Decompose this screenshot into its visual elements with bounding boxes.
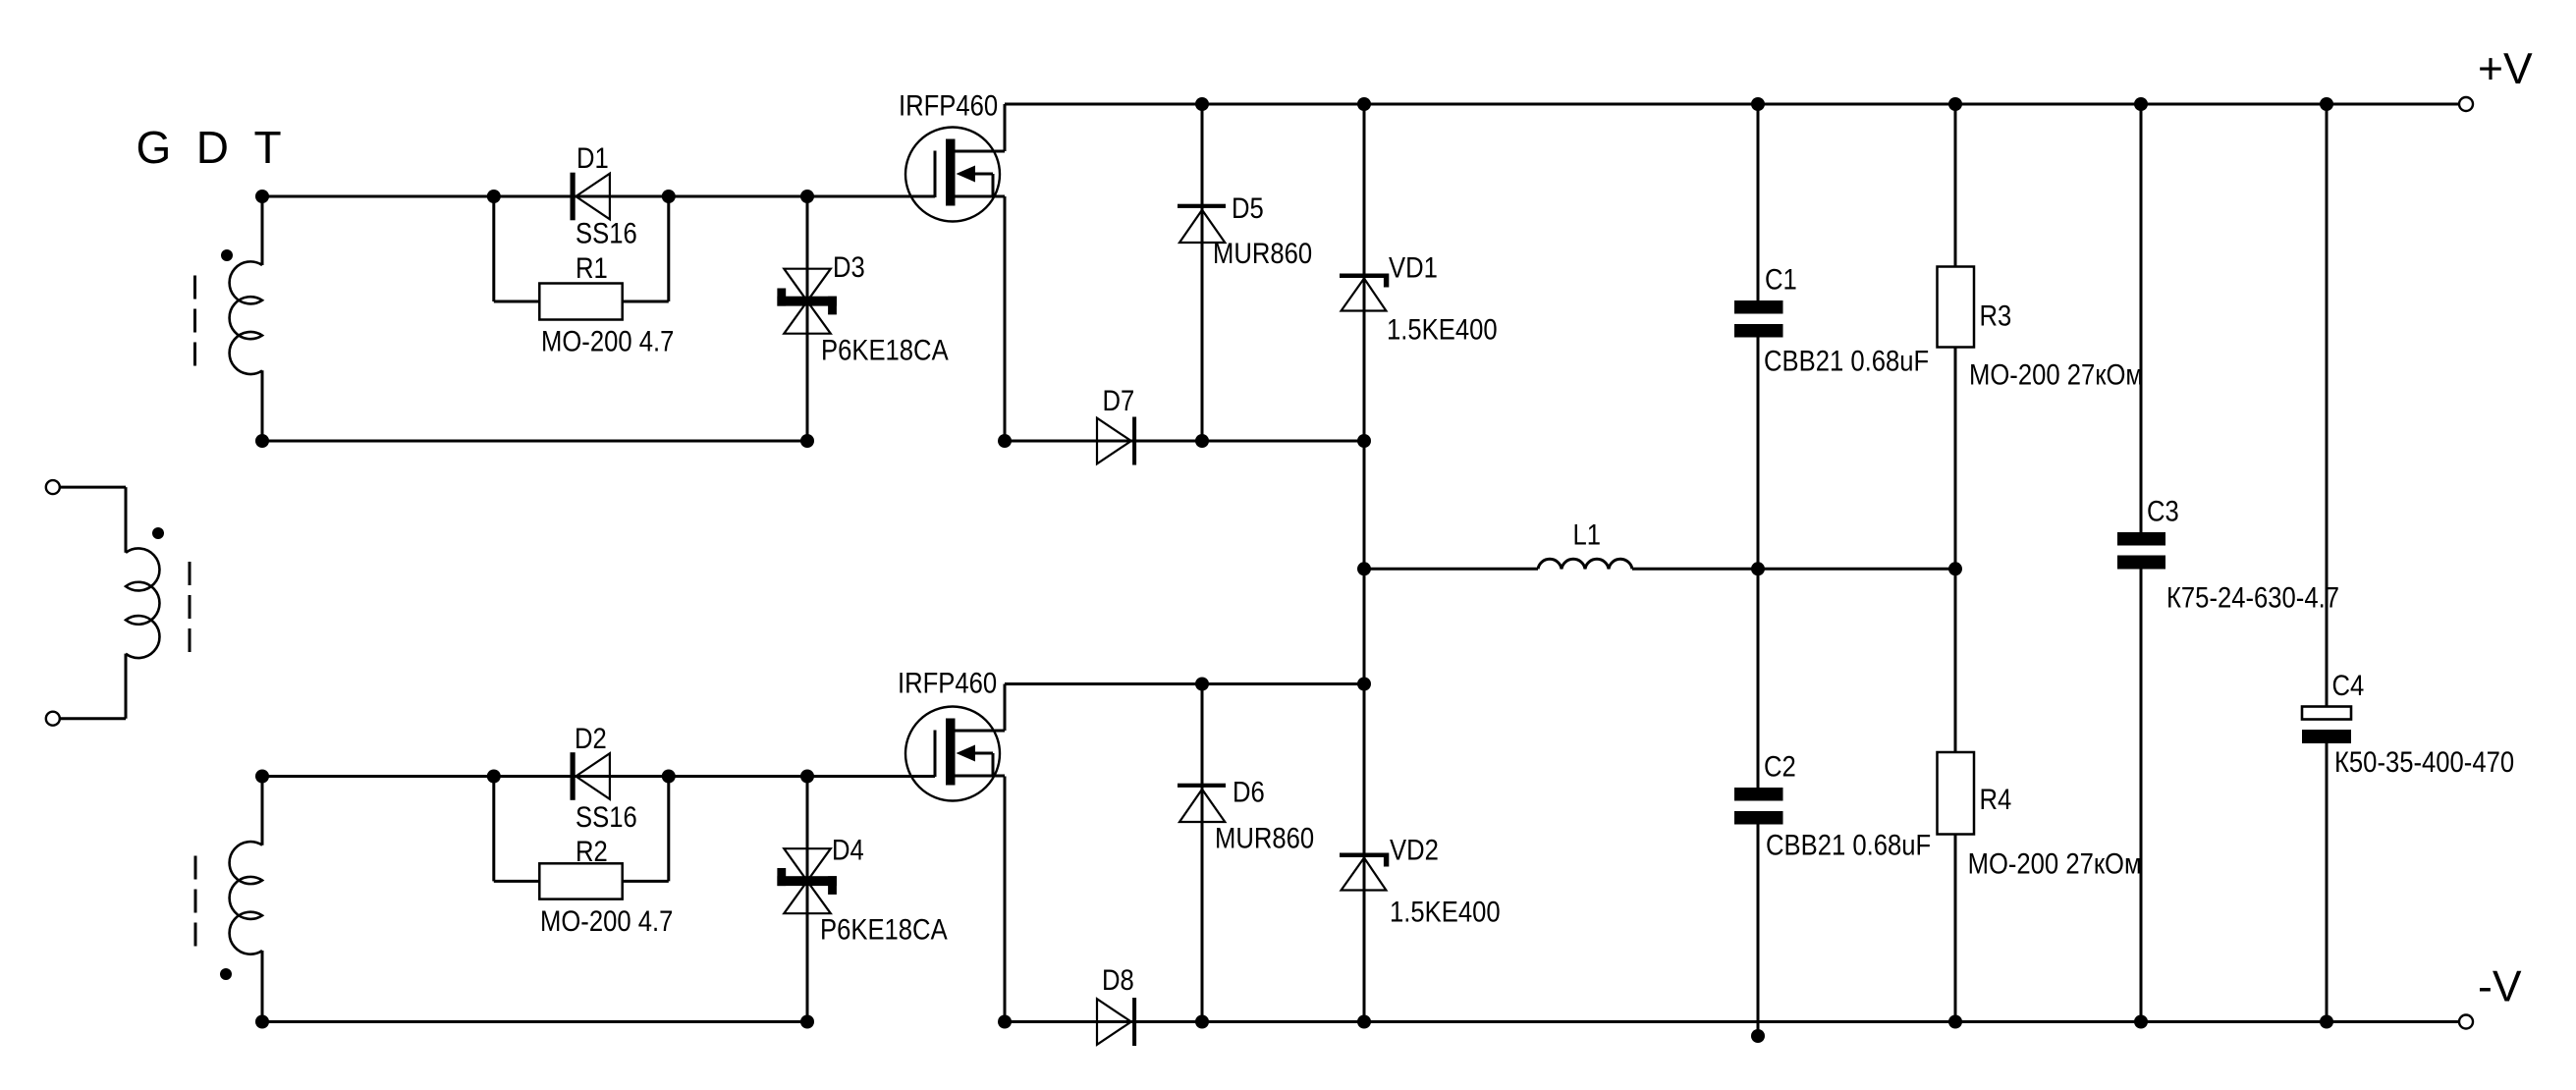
label MUR860 (D6): [1215, 822, 1314, 854]
wire R4 bottom: [1954, 835, 1957, 1022]
wire lower secondary top: [261, 777, 264, 845]
label MO-200 4.7 (R1): [541, 325, 674, 357]
wire R3 top: [1954, 104, 1957, 267]
wire C2 bottom: [1757, 825, 1760, 1037]
label R2: [575, 835, 608, 867]
svg-text:P6KE18CA: P6KE18CA: [821, 334, 949, 366]
winding upper secondary: [230, 261, 262, 374]
svg-text:VD1: VD1: [1389, 251, 1438, 284]
wire mid rail left: [1364, 568, 1538, 571]
node drain rail VD2: [1357, 678, 1371, 691]
svg-text:C3: C3: [2147, 495, 2179, 527]
core lower secondary: [194, 856, 197, 947]
wire C1 top: [1757, 104, 1760, 300]
node drain rail D6: [1195, 678, 1209, 691]
resistor R4: [1938, 752, 1975, 835]
node top C1: [1751, 97, 1765, 111]
label P6KE18CA (D3): [821, 334, 949, 366]
svg-text:GDT: GDT: [137, 122, 307, 173]
diode D6: [1178, 784, 1226, 822]
terminal -V: [2459, 1015, 2473, 1029]
tvs D4: [777, 848, 837, 913]
svg-text:C2: C2: [1764, 750, 1796, 783]
label IRFP460 lower: [898, 667, 997, 699]
transistor Q2 IRFP460: [905, 707, 1005, 801]
node bottom C3: [2134, 1015, 2148, 1029]
node D3 top: [800, 190, 814, 203]
svg-text:MUR860: MUR860: [1215, 822, 1314, 854]
label SS16: [575, 217, 637, 249]
label MUR860 (D5): [1213, 237, 1312, 269]
capacitor C1: [1734, 300, 1783, 338]
wire Q2 drain: [1004, 684, 1007, 732]
svg-text:К75-24-630-4.7: К75-24-630-4.7: [2166, 581, 2339, 614]
wire lower secondary bottom: [261, 951, 264, 1022]
wire C4 bottom: [2326, 743, 2329, 1022]
wire lower drain rail: [1005, 682, 1364, 685]
node Q2 source junction: [998, 1015, 1012, 1029]
wire bottom rail left: [262, 1020, 807, 1023]
svg-text:R4: R4: [1980, 783, 2012, 815]
svg-text:D7: D7: [1103, 384, 1135, 416]
node VD1 mid: [1357, 434, 1371, 448]
node top C3: [2134, 97, 2148, 111]
node Q1 source junction: [998, 434, 1012, 448]
svg-text:MO-200 27кОм: MO-200 27кОм: [1969, 358, 2143, 391]
svg-text:MO-200 4.7: MO-200 4.7: [540, 904, 673, 937]
label D7: [1103, 384, 1135, 416]
resistor R1: [539, 284, 622, 320]
diode D1: [571, 173, 610, 221]
wire D4 column: [806, 777, 809, 1022]
wire R2 left branch: [494, 777, 540, 882]
label GDT transformer: [137, 122, 307, 173]
resistor R2: [539, 863, 622, 899]
wire upper gate rail: [262, 195, 935, 198]
node top VD1: [1357, 97, 1371, 111]
svg-text:D3: D3: [833, 250, 865, 283]
tvs VD1: [1340, 274, 1389, 311]
label CBB21 0.68uF (C1): [1764, 345, 1929, 377]
wire R3-R4 column: [1954, 348, 1957, 753]
diode D8: [1097, 998, 1136, 1046]
svg-text:D6: D6: [1233, 776, 1265, 808]
node gdt upper bottom: [255, 434, 269, 448]
capacitor C2: [1734, 788, 1783, 825]
wire C3 top: [2140, 104, 2143, 532]
label VD2: [1390, 834, 1439, 866]
node bottom R4: [1948, 1015, 1962, 1029]
diode D7: [1097, 417, 1136, 465]
node top D5: [1195, 97, 1209, 111]
node gdt upper top: [255, 190, 269, 203]
label MO-200 4.7 (R2): [540, 904, 673, 937]
label -V: [2478, 963, 2522, 1011]
label 1.5KE400 (VD1): [1387, 313, 1498, 346]
node D5 bottom: [1195, 434, 1209, 448]
wire Q1 source: [1004, 196, 1007, 441]
tvs D3: [777, 269, 837, 334]
inductor L1: [1538, 559, 1632, 569]
node D4 bottom: [800, 1015, 814, 1029]
wire C4 top: [2326, 104, 2329, 707]
svg-text:+V: +V: [2478, 45, 2533, 93]
wire bottom rail right: [1005, 1020, 2459, 1023]
svg-text:CBB21 0.68uF: CBB21 0.68uF: [1766, 829, 1931, 861]
svg-text:MO-200 4.7: MO-200 4.7: [541, 325, 674, 357]
label VD1: [1389, 251, 1438, 284]
node bottom D6: [1195, 1015, 1209, 1029]
node bottom VD2: [1357, 1015, 1371, 1029]
label R3: [1980, 300, 2012, 332]
core primary: [189, 562, 192, 654]
wire C3 bottom: [2140, 570, 2143, 1022]
wire top rail: [1005, 103, 2459, 106]
label L1: [1573, 518, 1602, 551]
svg-text:MUR860: MUR860: [1213, 237, 1312, 269]
winding lower secondary: [230, 842, 262, 954]
wire D3 column: [806, 196, 809, 441]
svg-text:C1: C1: [1765, 263, 1797, 296]
label C1: [1765, 263, 1797, 296]
wire VD column: [1363, 104, 1366, 1022]
terminal primary top: [46, 480, 60, 494]
svg-text:IRFP460: IRFP460: [898, 667, 997, 699]
svg-text:D5: D5: [1232, 191, 1264, 224]
svg-text:К50-35-400-470: К50-35-400-470: [2334, 745, 2514, 778]
wire Q1 drain: [1004, 104, 1007, 151]
node D1 cathode-side: [662, 190, 676, 203]
wire R1 right branch: [623, 196, 669, 301]
label R1: [575, 251, 608, 284]
wire Q2 source: [1004, 777, 1007, 1022]
wire upper secondary bottom: [261, 370, 264, 441]
label D8: [1102, 963, 1134, 996]
wire mid rail right: [1632, 568, 1955, 571]
node mid VD: [1357, 562, 1371, 575]
svg-text:D2: D2: [575, 722, 607, 754]
svg-text:R1: R1: [575, 251, 608, 284]
label SS16 (D2): [575, 800, 637, 833]
phase dot upper secondary: [221, 249, 233, 261]
wire D5 column: [1201, 104, 1204, 441]
wire lower gate rail: [262, 775, 935, 778]
node C2 bottom: [1751, 1029, 1765, 1043]
svg-text:SS16: SS16: [575, 217, 637, 249]
capacitor C3: [2117, 532, 2165, 570]
label CBB21 0.68uF (C2): [1766, 829, 1931, 861]
label +V: [2478, 45, 2533, 93]
wire C1-C2 column: [1757, 338, 1760, 789]
node gdt lower bottom: [255, 1015, 269, 1029]
node D1 anode: [487, 190, 501, 203]
node mid R3: [1948, 562, 1962, 575]
wire primary bottom lead: [60, 654, 126, 719]
svg-text:IRFP460: IRFP460: [899, 89, 998, 122]
svg-text:C4: C4: [2332, 669, 2365, 701]
label D2: [575, 722, 607, 754]
label MO-200 27kOm (R3): [1969, 358, 2143, 391]
tvs VD2: [1340, 853, 1389, 891]
node gdt lower top: [255, 770, 269, 784]
label MO-200 27kOm (R4): [1968, 847, 2142, 880]
diode D2: [571, 752, 610, 800]
node bottom C4: [2320, 1015, 2333, 1029]
wire R1 left branch: [494, 196, 540, 301]
node top C4: [2320, 97, 2333, 111]
svg-text:1.5KE400: 1.5KE400: [1387, 313, 1498, 346]
svg-text:SS16: SS16: [575, 800, 637, 833]
wire source rail left: [262, 440, 807, 443]
phase dot primary: [152, 527, 164, 539]
label K50-35-400-470: [2334, 745, 2514, 778]
svg-text:1.5KE400: 1.5KE400: [1390, 896, 1501, 928]
svg-text:L1: L1: [1573, 518, 1602, 551]
svg-text:D8: D8: [1102, 963, 1134, 996]
label C2: [1764, 750, 1796, 783]
svg-text:R2: R2: [575, 835, 608, 867]
terminal +V: [2459, 97, 2473, 111]
node D2 cathode-side: [662, 770, 676, 784]
svg-text:MO-200 27кОм: MO-200 27кОм: [1968, 847, 2142, 880]
label 1.5KE400 (VD2): [1390, 896, 1501, 928]
node D4 top: [800, 770, 814, 784]
node D2 anode: [487, 770, 501, 784]
svg-text:D4: D4: [832, 834, 864, 866]
svg-text:P6KE18CA: P6KE18CA: [820, 913, 948, 946]
diode D5: [1178, 204, 1226, 243]
label R4: [1980, 783, 2012, 815]
transistor Q1 IRFP460: [905, 128, 1005, 222]
winding primary L-p: [126, 548, 159, 658]
node mid C1: [1751, 562, 1765, 575]
label K75-24-630-4.7: [2166, 581, 2339, 614]
capacitor C4: [2302, 707, 2351, 744]
label D6: [1233, 776, 1265, 808]
wire primary top lead: [60, 487, 126, 553]
node top R3: [1948, 97, 1962, 111]
label D4: [832, 834, 864, 866]
wire upper secondary top: [261, 196, 264, 265]
node D3 bottom: [800, 434, 814, 448]
svg-text:R3: R3: [1980, 300, 2012, 332]
label D5: [1232, 191, 1264, 224]
terminal primary bottom: [46, 712, 60, 726]
wire source rail right: [1005, 440, 1364, 443]
svg-text:VD2: VD2: [1390, 834, 1439, 866]
label C3: [2147, 495, 2179, 527]
label C4: [2332, 669, 2365, 701]
label P6KE18CA (D4): [820, 913, 948, 946]
svg-text:D1: D1: [576, 141, 609, 174]
label D1: [576, 141, 609, 174]
label D3: [833, 250, 865, 283]
core upper secondary: [193, 276, 196, 367]
svg-text:-V: -V: [2478, 963, 2522, 1011]
wire R2 right branch: [623, 777, 669, 882]
wire D6 column: [1201, 684, 1204, 1022]
resistor R3: [1938, 267, 1975, 348]
phase dot lower secondary: [220, 968, 232, 980]
label IRFP460 upper: [899, 89, 998, 122]
svg-text:CBB21 0.68uF: CBB21 0.68uF: [1764, 345, 1929, 377]
